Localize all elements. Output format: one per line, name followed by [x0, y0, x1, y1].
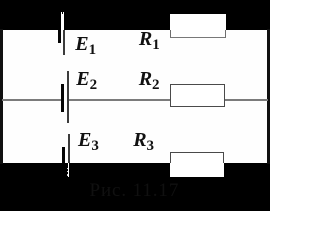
battery E1: notch at top of highlight [62, 12, 63, 14]
label E3 [78, 130, 99, 154]
resistor R1: gray border (visible below band) [170, 30, 226, 38]
wire: left rail [0, 29, 3, 164]
resistor R3: white body (overlapping band) [170, 152, 224, 177]
wire: middle branch, left rail to E2 [2, 99, 61, 101]
caption: Рис. 11.17 [90, 181, 210, 200]
battery E3: long thin plate (above band) [68, 134, 70, 163]
label E2 [76, 69, 97, 93]
wire: middle branch, R2 to right rail [225, 99, 268, 101]
battery E3: long plate highlight inside bottom band (white, jagged) [68, 163, 69, 177]
battery E2: short thick plate [61, 84, 64, 112]
resistor R2: bordered box [170, 84, 225, 108]
label E1 [75, 34, 96, 58]
resistor R1: white body (overlapping band) [170, 14, 226, 37]
black page band (bottom) [0, 163, 270, 211]
label R3 [133, 130, 154, 154]
resistor R3: gray border (visible above band) [170, 152, 224, 164]
battery E1: short thick plate [58, 30, 61, 43]
battery E2: long thin plate [67, 71, 69, 124]
label R2 [139, 69, 160, 93]
wire: right rail [267, 29, 269, 164]
battery E3: short thick plate [62, 147, 65, 164]
label R1 [139, 29, 160, 53]
battery E1: long thin plate (below band) [63, 30, 65, 55]
black page band (top) [0, 0, 270, 30]
battery E1: long plate highlight inside top band (white) [61, 12, 65, 30]
wire: middle branch, E2 to R2 [69, 99, 172, 101]
